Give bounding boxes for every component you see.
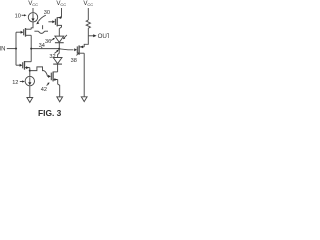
- wire Q5 source to negative supply: [58, 80, 60, 97]
- transistor Q2 (FET 32) gate lead: [48, 21, 52, 23]
- transistor Q5 source lead with arrow: [53, 79, 58, 81]
- current source I2 (circle): [25, 76, 34, 85]
- wire junction to diode D2 anode: [58, 49, 60, 58]
- diode D1 (36) triangle: [55, 36, 64, 42]
- transistor Q1 drain lead: [26, 28, 32, 30]
- node rail-left junction dot: [30, 48, 32, 50]
- svg-text:10: 10: [15, 13, 21, 19]
- node tail branch dot: [29, 70, 31, 72]
- transistor Q1 (FET 34) gate lead: [16, 31, 21, 33]
- svg-text:30: 30: [44, 10, 50, 16]
- transistor Q4 channel bar: [78, 45, 80, 54]
- leader arrow for label 32: [54, 51, 57, 53]
- svg-text:CC: CC: [32, 2, 38, 7]
- current source I1 arrow: [32, 13, 34, 19]
- transistor Q3 channel bar: [24, 61, 26, 70]
- arrow to negative supply (middle): [57, 97, 63, 102]
- transistor Q5 (FET 40/42) gate bar: [50, 73, 52, 81]
- svg-text:OUT: OUT: [98, 33, 109, 40]
- diode D2 (38) triangle: [53, 58, 62, 64]
- node rail junction dot: [58, 48, 60, 50]
- transistor Q2 gate bar: [54, 19, 56, 25]
- transistor Q4 (FET 30) gate arrowhead: [74, 48, 77, 51]
- leader tick for label 34: [41, 47, 43, 48]
- transistor Q3 drain lead: [25, 61, 32, 63]
- transistor Q4 drain lead with arrow: [79, 46, 84, 48]
- transistor Q1 channel bar: [25, 28, 27, 37]
- wire vertical tick through hop: [42, 25, 44, 29]
- transistor Q5 channel bar: [52, 72, 54, 82]
- wire OUT stub: [88, 35, 93, 37]
- wire I2 to negative supply: [29, 86, 31, 98]
- VCC terminal 2 label: [56, 0, 66, 7]
- current source I1 (circle): [28, 13, 37, 22]
- node IN junction dot: [15, 48, 17, 50]
- transistor Q3 gate bar: [22, 62, 24, 68]
- wire Q2 source to diode D1: [58, 29, 60, 36]
- wire Vcc1 to current source 10: [32, 8, 34, 12]
- diode D1 cathode bar: [55, 42, 64, 44]
- wire Q4 source to negative supply: [83, 53, 85, 97]
- wire Q4 drain up to OUT node: [84, 36, 88, 47]
- leader arrow for label 12: [20, 81, 23, 83]
- leader arrow for label 30: [38, 15, 46, 21]
- svg-text:CC: CC: [87, 2, 93, 7]
- wire D1 cathode to rail junction: [58, 43, 60, 49]
- transistor Q1 source lead: [26, 34, 32, 36]
- transistor Q4 gate bar: [76, 46, 78, 53]
- leader arrow for label 38: [76, 53, 78, 55]
- diode D2 cathode bar: [53, 63, 62, 65]
- wire rail junction to Q4 gate: [59, 49, 73, 50]
- transistor Q1 gate bar: [23, 29, 25, 35]
- wire gate column (Q1 gate to Q3 gate): [15, 32, 17, 65]
- wire Vcc2 to Q2: [61, 8, 63, 18]
- transistor Q3 (lower-left FET) gate lead: [16, 64, 20, 66]
- transistor Q5 drain lead: [53, 71, 58, 73]
- svg-text:38: 38: [71, 58, 77, 64]
- transistor Q4 source lead: [79, 52, 84, 54]
- wire Q3 source to current source 12: [29, 68, 31, 77]
- wire resistor to OUT node: [87, 28, 89, 36]
- svg-text:FIG. 3: FIG. 3: [38, 108, 62, 118]
- wire IN to gate column: [7, 48, 16, 50]
- wire Q1 source down through rail to Q3 drain: [30, 35, 32, 61]
- wire rail node 34: [31, 48, 59, 50]
- transistor Q2 bottom lead: [57, 25, 61, 28]
- wire hop (crossover) at node A branch: [34, 30, 38, 32]
- VCC terminal 3 label: [83, 0, 93, 7]
- current source I2 arrow: [29, 77, 31, 83]
- wire D2 cathode to Q5 drain: [57, 64, 59, 72]
- svg-text:42: 42: [41, 87, 47, 93]
- VCC terminal 1 label: [28, 0, 38, 7]
- resistor R1 zigzag: [86, 20, 90, 28]
- wire Vcc3 to resistor: [87, 8, 89, 20]
- svg-text:36: 36: [45, 39, 51, 45]
- svg-text:12: 12: [12, 80, 18, 86]
- leader arrow for label 10: [22, 14, 25, 16]
- transistor Q2 channel bar: [56, 17, 58, 26]
- arrow OUT: [93, 34, 96, 37]
- wire tail branch with square hop to Q5 gate: [30, 67, 44, 71]
- transistor Q3 source lead with arrow: [25, 67, 30, 69]
- arrow to negative supply (left): [27, 98, 33, 103]
- leader tick at D1 right corner: [64, 35, 67, 39]
- leader arrow for label 36: [51, 39, 54, 41]
- svg-text:CC: CC: [60, 2, 66, 7]
- wire node A: current source 10 down to FET 34 drain: [31, 22, 33, 29]
- arrow to negative supply (right): [81, 97, 87, 102]
- leader arrow for label 42: [47, 83, 49, 85]
- svg-text:IN: IN: [0, 46, 5, 52]
- transistor Q2 top lead with source arrow: [57, 17, 61, 19]
